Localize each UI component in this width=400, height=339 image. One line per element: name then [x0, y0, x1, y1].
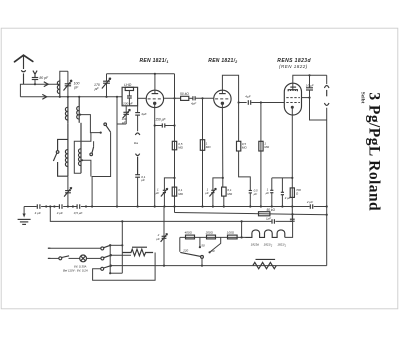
grid resistor 0.1M pair2 [222, 187, 233, 206]
capacitor 200pF inside LHD frame [122, 91, 134, 106]
svg-text:10 µF: 10 µF [306, 83, 314, 87]
svg-text:200 pF: 200 pF [122, 101, 134, 105]
coil LHD with parallel capacitor frame [122, 83, 138, 106]
node stub/cathode [291, 177, 293, 179]
selector contact row 2 [101, 254, 131, 260]
svg-text:4 µF: 4 µF [57, 211, 63, 215]
wire screen grid to bypass [302, 97, 310, 99]
capacitor 150uF cathode link [154, 117, 176, 127]
node C2/W2 [105, 96, 107, 98]
capacitor 3uF output [281, 178, 291, 207]
ground symbol [18, 207, 31, 225]
svg-text:1µF: 1µF [266, 217, 271, 221]
coil L5 lower right [78, 123, 81, 173]
svg-text:50 kΩ: 50 kΩ [267, 208, 276, 212]
wire tube1 plate to 50k [164, 97, 181, 99]
selector rail x=122.3 from bus C [121, 220, 123, 273]
heater wire y=237.4 [180, 236, 246, 238]
node 1M leg [260, 101, 262, 103]
resistor 50k bus B [259, 208, 276, 216]
wire T1 top plate wire y=73.8 [107, 73, 175, 75]
selector rail x=110.3 [109, 245, 122, 274]
capacitor 4uF bus mid [57, 204, 64, 215]
antenna coil L1 [57, 71, 68, 97]
capacitor 0.5uF [249, 188, 258, 206]
tap 60 [209, 237, 221, 253]
svg-text:3 Pg/PgL Roland: 3 Pg/PgL Roland [366, 92, 383, 211]
svg-text:4µF: 4µF [245, 95, 250, 99]
svg-text:200Ω: 200Ω [205, 230, 214, 234]
trimmer capacitor series aerial [64, 176, 72, 206]
svg-text:Bei 110V : 6V, 0,2A: Bei 110V : 6V, 0,2A [63, 269, 88, 273]
trimmer capacitor 2uF bass [156, 207, 167, 267]
node tube1 plate / T1 [154, 73, 156, 75]
svg-text:50: 50 [201, 243, 205, 247]
node C1/W2 [67, 96, 69, 98]
capacitor 80pF [32, 76, 49, 84]
grid capacitor 1uF pair2 [205, 178, 223, 207]
variable capacitor C2 tuning 170pF [94, 74, 111, 97]
node tone cap [308, 74, 310, 76]
svg-text:1823d: 1823d [251, 243, 259, 247]
svg-text:pF: pF [73, 86, 79, 90]
heater dropper resistor with bar [93, 247, 156, 280]
wire L5 frame loop [74, 141, 81, 173]
node bus B right [326, 214, 328, 216]
resistor 700 ohm cathode [290, 188, 301, 198]
variable capacitor C1 100pF [64, 71, 80, 97]
capacitor 0.5uF bus [74, 204, 83, 215]
node L3/W2 [78, 96, 80, 98]
jack upper half [135, 133, 140, 135]
coil L2 RF secondary [65, 97, 68, 124]
svg-text:4µF: 4µF [141, 112, 146, 116]
svg-text:4 µF: 4 µF [35, 211, 41, 215]
grid resistor 0.1M [172, 187, 183, 196]
node plate tube2 [238, 101, 240, 103]
coil L3 coupling [77, 97, 80, 123]
svg-text:µF: µF [141, 178, 145, 182]
wire coupling to output tube y=102.5 [239, 102, 285, 104]
bus A junction nodes [45, 205, 328, 207]
node antenna coil / W2 [59, 96, 61, 98]
bottom line y=265.6 [110, 265, 326, 267]
resistor 50k detector [180, 92, 189, 100]
node antenna/capacitor junction [34, 83, 36, 85]
capacitor 0.1uF jack column [135, 175, 146, 207]
wire grid tube1 [138, 97, 146, 99]
wire tube2 plate loop [222, 75, 238, 102]
capacitor 4uF bus left [35, 204, 42, 215]
capacitor 1uF bus C [266, 217, 275, 224]
svg-text:220: 220 [182, 249, 188, 253]
bus C y=221.4 [50, 207, 292, 222]
aerial jack Y [33, 71, 37, 78]
wire L5 top to tap rail [81, 133, 91, 142]
wire L5 tap [81, 159, 91, 176]
svg-text:(REN 1822): (REN 1822) [279, 64, 308, 69]
resistor 1M grid leak tube2 [200, 98, 211, 206]
switch S3 [90, 141, 94, 156]
connector arrow on W1 [44, 82, 48, 87]
resistor 0.5M screen feed [237, 103, 251, 191]
loudspeaker plug connectors [324, 86, 329, 106]
jack column: capacitor 4uF [135, 106, 146, 131]
svg-text:4µF: 4µF [191, 102, 196, 106]
wire anode load rail x=174.5 [174, 74, 176, 213]
jack lower half Y [136, 154, 140, 175]
svg-text:2 µF: 2 µF [306, 200, 313, 204]
mains lead 2 with switch [48, 256, 80, 260]
tap 220 selector [180, 237, 204, 266]
tube REN1821/1 [146, 74, 163, 108]
svg-text:LHD: LHD [124, 83, 132, 87]
svg-text:µF: µF [205, 191, 209, 195]
node bus C left [49, 205, 51, 207]
trimmer capacitor 110pF at LHD [117, 106, 130, 125]
mains lead 1 [48, 247, 101, 249]
svg-text:REN 1821/2: REN 1821/2 [208, 58, 237, 64]
svg-text:MΩ: MΩ [178, 146, 183, 150]
potentiometer hum with slider bar [253, 259, 276, 268]
bus B y=212.7 [175, 213, 327, 215]
connector arrow on W2 [42, 94, 46, 99]
resistor 400 ohm [185, 230, 195, 239]
wire pentode plate top [293, 75, 327, 83]
svg-text:50 kΩ: 50 kΩ [180, 92, 189, 96]
svg-text:MΩ: MΩ [242, 146, 247, 150]
node grid tube2 [201, 97, 203, 99]
wire heater end to bus B [285, 214, 293, 237]
wire switch to cathode rail [92, 132, 111, 206]
svg-text:µF: µF [156, 191, 160, 195]
wire W1 antenna bus y=84 [20, 84, 59, 97]
resistor 0.5M anode load [172, 141, 183, 150]
selector contact row 3 [101, 265, 112, 271]
tube2 cathode chain to grid leak pair 2 [221, 108, 223, 188]
wire pentode cathode column [291, 115, 293, 207]
svg-text:MΩ: MΩ [264, 145, 269, 149]
svg-text:100Ω: 100Ω [227, 230, 235, 234]
svg-text:150 µF: 150 µF [155, 117, 166, 121]
antenna [15, 55, 33, 84]
svg-text:Seibt: Seibt [359, 92, 365, 104]
node x117/W2 [116, 96, 118, 98]
capacitor 4uF coupling [189, 96, 213, 105]
wire L3 tap to band switch [79, 114, 101, 134]
svg-text:pF: pF [94, 87, 100, 91]
wire tube1 cathode down [154, 108, 156, 207]
svg-text:400Ω: 400Ω [185, 230, 193, 234]
node grid leak pair 1 [173, 177, 175, 179]
svg-text:0,5 µF: 0,5 µF [74, 211, 83, 215]
grid capacitor 1uF with arrow [156, 178, 175, 207]
node rail/W2 [173, 97, 175, 99]
svg-text:MΩ: MΩ [227, 192, 232, 196]
resistor 100 ohm [227, 230, 237, 239]
tap 50 [199, 237, 205, 248]
resistor 1M leg 2 [259, 103, 270, 207]
wire HT feed vertical x=117 [116, 97, 118, 207]
selector contact row 1 [101, 244, 124, 250]
wire heater feed to bus C [241, 221, 243, 237]
tube REN1821/2 [214, 90, 231, 108]
heater coil chain [246, 230, 287, 247]
pentode RENS1823d [284, 83, 301, 115]
capacitor 4uF coupling 2 [245, 95, 251, 105]
svg-text:80 pF: 80 pF [39, 76, 49, 80]
dial lamp [63, 255, 101, 273]
coil L4 lower left [65, 124, 68, 177]
wire right rail [326, 75, 328, 265]
svg-text:µF: µF [156, 237, 160, 241]
stub wire y=177.9 [272, 177, 293, 179]
wire W2 lower input bus y=97 [20, 96, 122, 98]
svg-text:RENS 1823d: RENS 1823d [277, 58, 311, 64]
svg-text:60: 60 [211, 249, 215, 253]
resistor 200 ohm [205, 230, 216, 239]
svg-text:MΩ: MΩ [206, 145, 211, 149]
svg-text:µF: µF [254, 192, 258, 196]
switch S2 with shorting loop [53, 139, 68, 176]
switch S1 wave band [104, 123, 111, 132]
ground bus A y=206.5 [24, 206, 327, 208]
svg-text:MΩ: MΩ [178, 192, 183, 196]
svg-text:Da: Da [134, 141, 138, 145]
svg-text:REN 1821/1: REN 1821/1 [140, 58, 169, 64]
capacitor 1uF output [266, 178, 274, 207]
capacitor bus C end [290, 207, 295, 222]
capacitor 10uF tone [306, 75, 327, 120]
capacitor 2uF bus right [306, 200, 314, 209]
svg-text:µF: µF [266, 191, 270, 195]
node pair2 [222, 177, 224, 179]
